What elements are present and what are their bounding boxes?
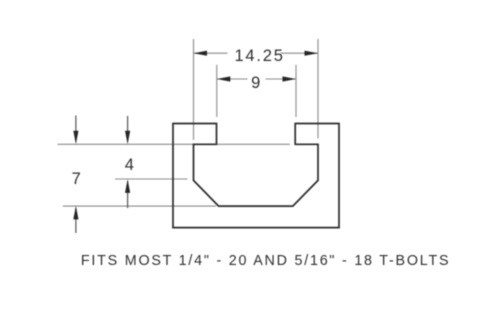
dimension 9 arrow right [283, 76, 297, 81]
dimension 7 bottom arrow stem [75, 208, 77, 233]
dimension 14.25 extension line right [317, 39, 319, 139]
dimension 7 top arrow stem [75, 116, 77, 142]
dimension 7 top arrow [73, 131, 78, 145]
dimension 9 arrow left [217, 76, 231, 81]
extension line at cavity bottom depth 7 [63, 205, 216, 207]
dimension 9 dimension line right segment [266, 78, 297, 80]
dimension 4 bottom arrow stem [127, 181, 129, 208]
dimension 14.25 dimension line right segment [281, 52, 319, 54]
extension line at slot floor depth 4 [115, 178, 188, 180]
dimension 14.25 arrow left [194, 51, 208, 56]
channel profile outline [173, 124, 339, 228]
svg-text:14.25: 14.25 [234, 47, 284, 65]
dimension 7 bottom arrow [73, 206, 78, 220]
dimension 9 extension line left [216, 65, 218, 117]
dimension 4 bottom arrow [125, 179, 130, 193]
extension line at lip underside (top reference for 7 and 4) [58, 143, 291, 145]
dimension 9 extension line right [295, 65, 297, 117]
dimension 9 dimension line left segment [217, 78, 248, 80]
svg-text:9: 9 [251, 74, 260, 92]
dimension 14.25 dimension line left segment [194, 52, 228, 54]
svg-text:4: 4 [125, 156, 134, 174]
svg-text:7: 7 [72, 170, 81, 188]
dimension 14.25 extension line left [193, 39, 195, 140]
dimension 4 top arrow [125, 131, 130, 145]
dimension 14.25 arrow right [305, 51, 319, 56]
dimension 4 top arrow stem [127, 116, 129, 141]
svg-text:FITS MOST 1/4" - 20 AND 5/16": FITS MOST 1/4" - 20 AND 5/16" - 18 T-BOL… [81, 253, 450, 269]
